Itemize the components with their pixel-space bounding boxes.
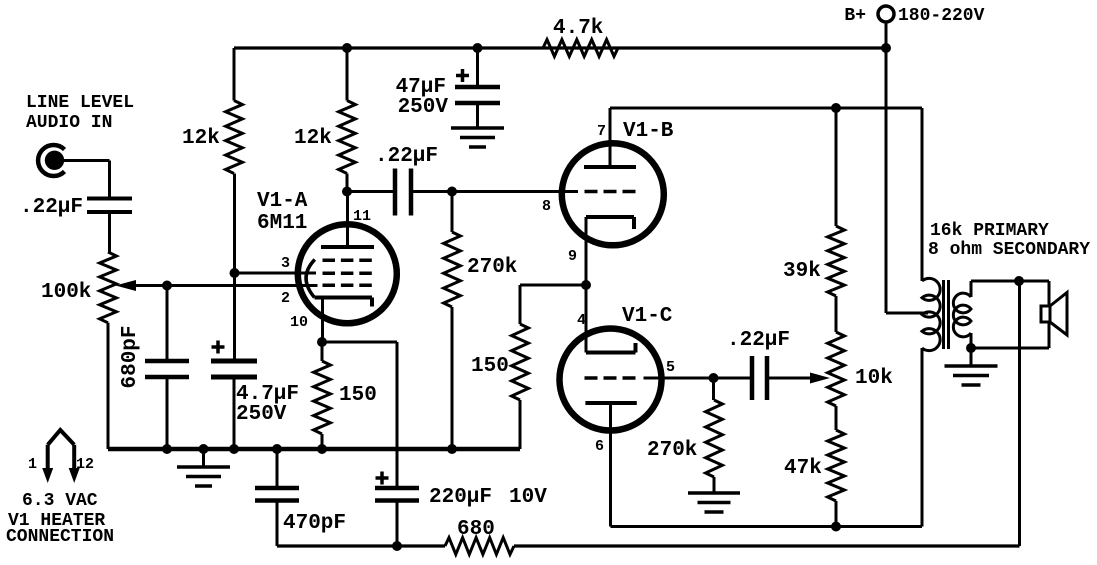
svg-text:12k: 12k (182, 127, 220, 150)
capacitor 680pF (119, 286, 189, 450)
node junction B+ / top rail (881, 43, 891, 53)
label 6.3 VAC (22, 491, 98, 511)
tube V1-C plate (585, 401, 636, 405)
wire top supply rail (234, 46, 886, 49)
svg-text:B+: B+ (844, 6, 866, 26)
svg-text:47k: 47k (784, 457, 822, 480)
svg-text:6: 6 (595, 438, 604, 455)
label CONNECTION (6, 527, 114, 547)
svg-text:10: 10 (290, 314, 308, 331)
tube V1-B cathode (586, 217, 634, 229)
svg-text:8 ohm SECONDARY: 8 ohm SECONDARY (928, 240, 1090, 260)
resistor 150 V1-B cathode (471, 324, 528, 400)
svg-text:LINE LEVEL: LINE LEVEL (26, 93, 134, 113)
svg-text:6M11: 6M11 (257, 212, 307, 235)
wire 39k to 10k (835, 296, 838, 332)
tube V1-B plate (584, 165, 636, 169)
tube V1-A 6M11 envelope (257, 190, 397, 323)
node junction 270k / grid wire (709, 373, 719, 383)
capacitor .22uF coupling C-pot (727, 329, 790, 400)
node junction pin9/pin4/150 (581, 280, 591, 290)
wiper arrow 10k (810, 373, 830, 384)
tube V1-A grid row 3 (323, 284, 373, 288)
svg-text:220µF: 220µF (429, 486, 492, 509)
svg-text:250V: 250V (236, 403, 287, 426)
svg-text:12k: 12k (294, 127, 332, 150)
capacitor .22uF coupling A-B (375, 145, 438, 216)
potentiometer 100k (41, 252, 116, 323)
wire bottom rail right (514, 544, 1020, 547)
wire speaker top lead (1048, 281, 1051, 306)
resistor 270k V1-B grid (444, 192, 518, 450)
transformer core (944, 280, 949, 349)
svg-text:3: 3 (281, 255, 290, 272)
svg-text:7: 7 (597, 123, 606, 140)
svg-text:16k PRIMARY: 16k PRIMARY (930, 221, 1049, 241)
svg-text:5: 5 (666, 359, 675, 376)
svg-text:V1-A: V1-A (257, 190, 308, 213)
svg-text:.22µF: .22µF (727, 329, 790, 352)
wire input cap to pot (108, 214, 111, 252)
node junction speaker top (1014, 276, 1024, 286)
tube V1-B cathode lead pin 9 (568, 217, 586, 285)
speaker (1041, 293, 1067, 336)
svg-text:680pF: 680pF (119, 325, 142, 388)
svg-text:CONNECTION: CONNECTION (6, 527, 114, 547)
svg-text:250V: 250V (398, 96, 449, 119)
node junction secondary ground (966, 343, 976, 353)
wire 39k top lead (835, 108, 838, 226)
wire jack to input cap (56, 161, 110, 197)
node junction plate 12k / coupling cap (342, 187, 352, 197)
wire bottom rail left (277, 544, 445, 547)
node junction wiper / 680pF (162, 281, 172, 291)
svg-text:9: 9 (568, 248, 577, 265)
resistor 270k V1-C grid (647, 378, 722, 493)
wire grid node to pin 3 (235, 272, 317, 275)
resistor 150 V1-A cathode (314, 361, 377, 434)
wire V1-C grid out pin 5 (644, 359, 714, 378)
wire speaker return to bottom rail (1018, 281, 1021, 546)
wire 10k to 47k (835, 406, 838, 430)
svg-text:180-220V: 180-220V (898, 6, 985, 26)
capacitor 4.7uF 250V (211, 273, 299, 449)
node junction ground stub / rail (199, 444, 209, 454)
node junction 12k-left / 4.7uF / pin3 (230, 268, 240, 278)
label pin 12 (76, 456, 94, 473)
svg-text:11: 11 (353, 208, 371, 225)
node junction 4.7uF / rail (229, 444, 239, 454)
wire 12k-left top lead (233, 48, 236, 101)
wiper arrow 100k (116, 280, 318, 291)
potentiometer 10k (828, 332, 893, 406)
resistor 680 feedback (445, 518, 514, 554)
label pin 2 (281, 290, 290, 307)
svg-text:6.3 VAC: 6.3 VAC (22, 491, 98, 511)
svg-text:AUDIO IN: AUDIO IN (26, 113, 112, 133)
tube V1-C cathode (586, 343, 636, 353)
label pin 1 (28, 456, 37, 473)
svg-text:100k: 100k (41, 281, 91, 304)
svg-text:470pF: 470pF (283, 512, 346, 535)
label pin 11 (353, 208, 371, 225)
wire 47k bottom lead (835, 501, 838, 527)
wire V1-B plate to transformer (610, 107, 922, 110)
node junction 150 / rail (317, 444, 327, 454)
tube V1-B grid (585, 190, 636, 194)
node junction 470pF / rail (272, 444, 282, 454)
wire B+ feed (886, 48, 928, 313)
wire 150 to ground rail (519, 400, 522, 449)
connector RCA jack input (38, 145, 64, 176)
resistor 4.7k (543, 17, 618, 56)
svg-text:8: 8 (542, 198, 551, 215)
svg-text:150: 150 (339, 384, 377, 407)
node junction 270k / V1-B grid (447, 187, 457, 197)
node junction V1-A cathode (317, 337, 327, 347)
wire node to 150 resistor (520, 285, 586, 324)
tube V1-C plate lead pin 6 (595, 403, 611, 527)
wire 12k-right top lead (346, 48, 349, 101)
label V1 HEATER (8, 511, 105, 531)
svg-text:10V: 10V (509, 486, 547, 509)
label pin 8 (542, 198, 551, 215)
tube V1-A grid side arc (306, 260, 315, 298)
wire grid node to cap (714, 377, 753, 380)
tube V1-A cathode (315, 298, 373, 307)
svg-text:.22µF: .22µF (375, 145, 438, 168)
wire 12k-right bottom lead (346, 174, 349, 192)
tube V1-C grid (585, 376, 636, 380)
ground under 47uF (451, 128, 504, 147)
tube V1-B envelope (562, 120, 674, 245)
heater pins 1/12 symbol (42, 430, 79, 483)
svg-text:1: 1 (28, 456, 37, 473)
node junction 47k / V1-C plate wire (831, 522, 841, 532)
tube V1-A plate (321, 192, 374, 248)
svg-text:V1-B: V1-B (623, 120, 674, 143)
tube V1-C envelope (560, 305, 673, 431)
wire 12k-left bottom lead to grid node (233, 174, 236, 274)
label LINE LEVEL AUDIO IN (26, 93, 134, 133)
node junction 220uF / bottom rail (392, 541, 402, 551)
resistor 47k (784, 430, 844, 501)
tube V1-A grid row 2 (323, 272, 373, 276)
wire coupling cap to grid node (411, 190, 452, 193)
svg-text:10k: 10k (855, 367, 893, 390)
wire secondary top (971, 280, 1049, 283)
capacitor 470pF (255, 449, 346, 546)
node junction 12k-right / top rail (342, 43, 352, 53)
node junction 47uF / top rail (473, 43, 483, 53)
svg-text:2: 2 (281, 290, 290, 307)
wire 150 top lead (321, 342, 324, 361)
node junction 680pF / rail (162, 444, 172, 454)
wire V1-C plate to transformer bottom (611, 525, 923, 528)
wire speaker bottom lead (1048, 322, 1051, 348)
node junction 270k / rail (447, 444, 457, 454)
svg-text:12: 12 (76, 456, 94, 473)
label 16k PRIMARY (930, 221, 1049, 241)
label pin 3 (281, 255, 290, 272)
transformer primary winding (922, 108, 940, 527)
wire cathode to 220uF (322, 342, 397, 488)
tube V1-C cathode lead pin 4 (577, 285, 586, 353)
svg-text:.22µF: .22µF (20, 196, 83, 219)
capacitor .22uF input (20, 196, 132, 219)
resistor 39k (783, 226, 844, 296)
wire secondary bottom (971, 347, 1049, 350)
svg-text:V1-C: V1-C (622, 305, 673, 328)
ground under 270k (688, 493, 740, 512)
resistor 12k left (182, 101, 242, 174)
capacitor 47uF 250V (396, 48, 500, 128)
wire plate node to coupling cap (347, 190, 395, 193)
tube V1-B plate lead pin 7 (597, 108, 610, 167)
svg-text:4.7k: 4.7k (553, 17, 603, 40)
svg-text:39k: 39k (783, 260, 821, 283)
wire grid node to V1-B pin 8 (452, 190, 578, 193)
svg-text:270k: 270k (467, 256, 517, 279)
capacitor 220uF 10V (375, 472, 547, 547)
svg-text:4: 4 (577, 312, 586, 329)
label 8 ohm SECONDARY (928, 240, 1090, 260)
terminal B+ 180-220V (844, 6, 984, 48)
wire 100k bottom lead to ground rail (107, 323, 110, 449)
svg-text:270k: 270k (647, 439, 697, 462)
resistor 12k right (294, 101, 355, 174)
wire ground rail (108, 447, 520, 452)
node junction 39k / plate wire (831, 103, 841, 113)
tube V1-A grid row 1 (323, 259, 373, 263)
svg-text:680: 680 (457, 518, 495, 541)
wire cap to 10k arrow (767, 377, 814, 380)
ground secondary (945, 348, 998, 385)
wire 150 bottom lead (321, 434, 324, 449)
transformer secondary winding (953, 281, 971, 348)
ground symbol main rail (177, 449, 230, 486)
tube V1-A cathode lead pin 10 (290, 298, 323, 343)
svg-text:150: 150 (471, 355, 509, 378)
